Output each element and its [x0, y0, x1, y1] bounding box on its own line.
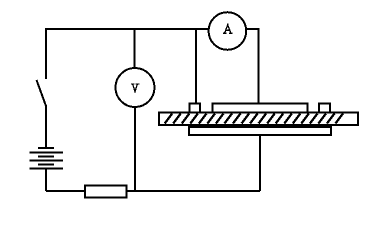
left clamp: [189, 104, 200, 113]
wire: bottom horizontal run: [46, 190, 260, 192]
wire: right riser from bottom bar to bottom wire: [259, 135, 261, 191]
wire: top horizontal from left corner to ammeter: [46, 28, 209, 30]
wire: left clamp lead (down from top wire): [195, 29, 197, 103]
wire: voltmeter top lead: [134, 28, 136, 69]
resistor R1: [85, 186, 126, 198]
ammeter A1: [209, 12, 247, 50]
bottom conductor bar: [189, 127, 331, 135]
wire: battery bottom to lower-left corner: [45, 169, 47, 192]
wire: left vertical upper (to switch): [45, 28, 47, 79]
wire: left vertical lower (switch to battery): [45, 105, 47, 148]
right clamp: [319, 103, 330, 112]
wire: ammeter right lead down to top bar: [246, 29, 259, 104]
switch S1 (open blade): [37, 80, 47, 106]
top conductor bar: [213, 104, 308, 113]
wire: voltmeter bottom lead: [134, 106, 136, 191]
battery B1 (three cells): [30, 148, 64, 169]
hatched board: [159, 113, 358, 126]
voltmeter V1: [116, 68, 155, 107]
